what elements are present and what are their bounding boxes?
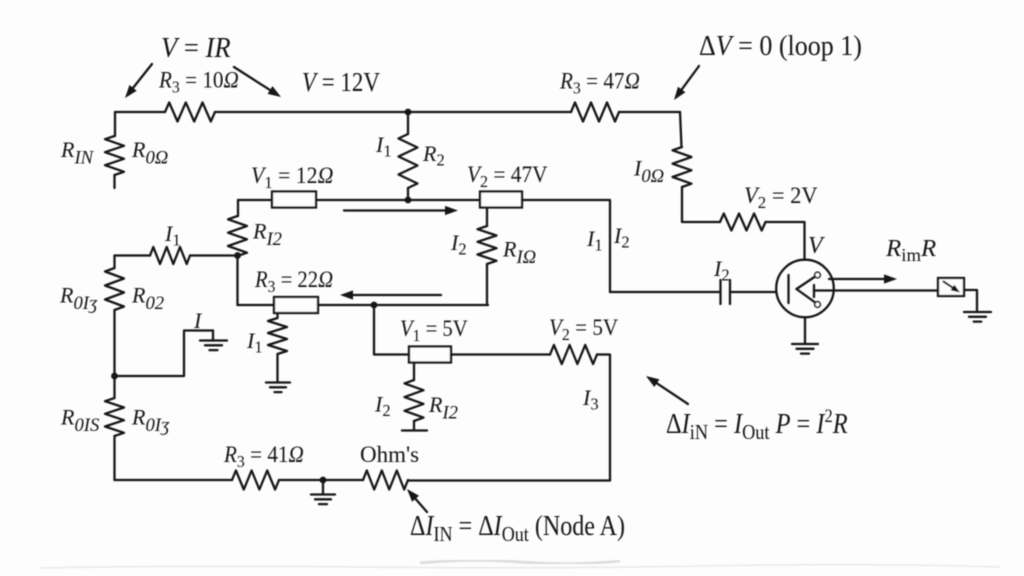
wire RI2l stub — [413, 421, 415, 431]
ground I1 — [266, 381, 290, 383]
tube cathode bar — [787, 275, 789, 303]
resistor box V1 = 5V — [409, 347, 451, 363]
current arrow left — [350, 294, 441, 296]
wire box2 down — [486, 208, 488, 227]
resistor R0IS — [105, 398, 124, 436]
ground bottom — [311, 493, 335, 495]
terminal bar RI2 lower — [402, 429, 427, 431]
resistor R3 = 10Ω — [165, 103, 215, 122]
faint scan mark — [420, 560, 620, 564]
node 22 junction — [371, 302, 378, 309]
arrow to V=12V node — [234, 67, 273, 92]
wire 22 right — [318, 304, 488, 306]
output arrow — [829, 278, 887, 280]
faint scan mark 2 — [40, 565, 1000, 568]
wire R0JS to bottom — [113, 436, 115, 480]
svg-text:V2 = 2V: V2 = 2V — [744, 183, 818, 212]
wire left corner down — [114, 112, 116, 136]
tube anode bar — [813, 285, 815, 297]
svg-text:V2 = 47V: V2 = 47V — [467, 161, 548, 191]
resistor V2 = 5V — [550, 345, 597, 364]
tube pin lower — [815, 302, 821, 308]
resistor I0Ω — [673, 147, 692, 187]
ground tube — [792, 343, 818, 345]
wire 22 box down — [276, 313, 278, 318]
node V = 12V junction dot — [405, 109, 412, 116]
resistor RI2 (lower) — [405, 380, 424, 421]
ground I — [200, 339, 227, 341]
arrow to left wire — [131, 64, 152, 90]
meter arrow — [944, 282, 955, 289]
wire to RI2 — [237, 200, 239, 216]
wire RI2 down to 22ohm wire — [236, 256, 238, 306]
wire top left-to-R3a — [115, 111, 165, 113]
resistor I1 (horizontal) — [150, 247, 190, 264]
wire bottom mid — [279, 479, 363, 481]
wire I1 res to node — [190, 254, 238, 256]
wire tube to meter box — [814, 289, 938, 291]
wire RIN stub — [113, 175, 115, 188]
tube arrow lower — [797, 289, 816, 303]
arrow from annotation — [654, 381, 688, 404]
node left junction — [111, 373, 118, 380]
resistor Ohm's — [363, 471, 408, 490]
wire capacitor to tube — [730, 291, 777, 293]
wire node down — [113, 376, 115, 398]
resistor box V1 = 12Ω — [272, 192, 316, 208]
node bottom junction — [320, 477, 327, 484]
tube pin upper — [815, 272, 821, 278]
svg-text:V2 = 5V: V2 = 5V — [549, 314, 618, 344]
resistor V2 = 2V — [720, 214, 766, 231]
current arrow right — [344, 209, 448, 211]
wire node to R2 — [407, 112, 409, 134]
wire I1v to ground — [276, 354, 278, 383]
svg-text:V: V — [808, 233, 825, 259]
wire to capacitor — [610, 291, 721, 293]
svg-text:Ohm's: Ohm's — [360, 442, 419, 467]
ground stem bottom — [322, 480, 324, 495]
wire between boxes — [316, 199, 480, 201]
arrow to Ohm's resistor — [413, 496, 427, 512]
svg-text:V = 12V: V = 12V — [302, 68, 380, 97]
wire bottom left — [115, 479, 233, 481]
resistor R2 — [399, 134, 418, 188]
wire left down1 — [113, 256, 115, 269]
capacitor I2 — [719, 280, 721, 304]
resistor RI2 (upper) — [228, 216, 247, 256]
wire bottom right — [408, 479, 610, 481]
wire R3b-to-corner — [619, 111, 680, 113]
resistor R02 — [105, 268, 124, 310]
wire node right — [115, 331, 214, 377]
resistor box V2 = 47V — [480, 192, 522, 208]
svg-text:R3 = 10Ω: R3 = 10Ω — [158, 67, 239, 97]
wire R02 to node — [113, 310, 115, 376]
node RI2 junction — [234, 252, 241, 259]
ground right — [964, 311, 991, 313]
resistor R3 = 47Ω — [571, 103, 619, 122]
svg-text:V1 = 5V: V1 = 5V — [400, 316, 468, 345]
svg-text:R3 = 41Ω: R3 = 41Ω — [223, 441, 304, 471]
vacuum tube V envelope — [776, 260, 834, 318]
resistor I1 (vertical) — [268, 318, 287, 354]
wire 2V to tube top — [766, 222, 805, 260]
wire V2=5V to corner — [597, 355, 610, 481]
svg-text:V = IR: V = IR — [161, 32, 231, 63]
svg-text:R3 = 22Ω: R3 = 22Ω — [254, 267, 333, 296]
svg-text:V1 = 12Ω: V1 = 12Ω — [251, 162, 333, 191]
wire 5Vbox right — [451, 353, 550, 355]
wire meter to ground — [964, 290, 977, 312]
svg-text:ΔV = 0 (loop 1): ΔV = 0 (loop 1) — [699, 30, 862, 61]
resistor R3 = 41Ω — [232, 471, 279, 490]
resistor box R3 = 22Ω — [274, 297, 318, 313]
node mid junction — [405, 197, 412, 204]
ground stem I — [212, 331, 214, 341]
wire I0 to corner — [682, 187, 720, 222]
wire RIohm down — [486, 264, 488, 305]
wire 5Vbox down — [413, 363, 415, 381]
wire R3a-to-nodeV12 — [215, 111, 571, 113]
wire box2 to right corner — [522, 200, 610, 292]
wire right corner down — [680, 112, 682, 147]
wire left to I1 res — [115, 254, 151, 256]
meter box — [938, 278, 964, 296]
tube arrow upper — [797, 277, 816, 290]
wire node down to 5V row — [374, 305, 409, 355]
wire 22 left — [238, 304, 275, 306]
resistor RIΩ — [478, 226, 497, 264]
svg-text:R3 = 47Ω: R3 = 47Ω — [559, 68, 640, 98]
wire tube bottom — [804, 317, 806, 344]
wire mid left corner — [238, 199, 272, 201]
resistor RIN / R0Ω — [105, 136, 124, 175]
arrow to loop1 corner — [680, 66, 699, 92]
wire R2 to mid node — [407, 188, 409, 200]
